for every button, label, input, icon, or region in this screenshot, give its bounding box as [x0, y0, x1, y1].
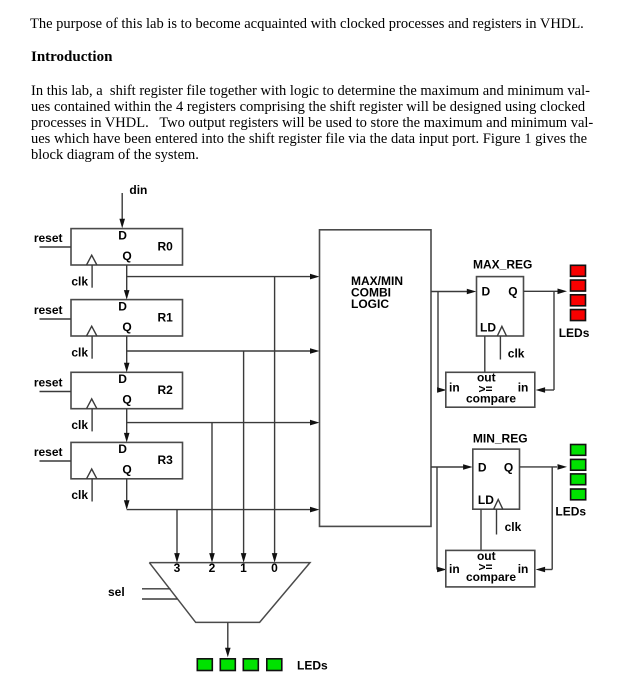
svg-text:LD: LD [480, 321, 496, 335]
svg-text:reset: reset [34, 445, 63, 459]
svg-text:LEDs: LEDs [555, 505, 586, 519]
svg-text:D: D [118, 372, 127, 386]
svg-text:R2: R2 [158, 383, 174, 397]
svg-text:sel: sel [108, 585, 125, 599]
svg-text:in: in [518, 562, 529, 576]
svg-text:R3: R3 [158, 453, 174, 467]
svg-text:reset: reset [34, 376, 63, 390]
svg-text:clk: clk [71, 274, 88, 288]
svg-text:2: 2 [209, 561, 216, 575]
svg-text:in: in [449, 562, 460, 576]
svg-text:MAX_REG: MAX_REG [473, 257, 532, 271]
svg-text:compare: compare [466, 570, 516, 584]
svg-text:D: D [482, 284, 491, 298]
svg-text:R1: R1 [158, 310, 174, 324]
svg-text:in: in [518, 380, 529, 394]
svg-text:D: D [478, 461, 487, 475]
svg-text:R0: R0 [158, 239, 174, 253]
svg-text:LEDs: LEDs [559, 326, 590, 340]
svg-text:D: D [118, 299, 127, 313]
svg-text:LOGIC: LOGIC [351, 297, 389, 311]
svg-text:Q: Q [122, 320, 131, 334]
svg-text:0: 0 [271, 561, 278, 575]
svg-text:clk: clk [508, 347, 525, 361]
svg-text:Q: Q [508, 284, 517, 298]
svg-text:reset: reset [34, 303, 63, 317]
svg-text:Q: Q [122, 463, 131, 477]
svg-text:LEDs: LEDs [297, 658, 328, 672]
svg-text:din: din [129, 183, 147, 197]
svg-text:LD: LD [478, 493, 494, 507]
svg-text:D: D [118, 228, 127, 242]
svg-text:clk: clk [71, 488, 88, 502]
svg-text:clk: clk [505, 520, 522, 534]
svg-text:reset: reset [34, 231, 63, 245]
svg-text:clk: clk [71, 418, 88, 432]
svg-text:1: 1 [240, 561, 247, 575]
svg-text:D: D [118, 442, 127, 456]
svg-text:in: in [449, 380, 460, 394]
svg-text:Q: Q [504, 461, 513, 475]
svg-text:Q: Q [122, 249, 131, 263]
svg-text:MIN_REG: MIN_REG [473, 432, 528, 446]
svg-text:clk: clk [71, 345, 88, 359]
svg-text:Q: Q [122, 393, 131, 407]
svg-text:3: 3 [174, 561, 181, 575]
svg-text:compare: compare [466, 391, 516, 405]
